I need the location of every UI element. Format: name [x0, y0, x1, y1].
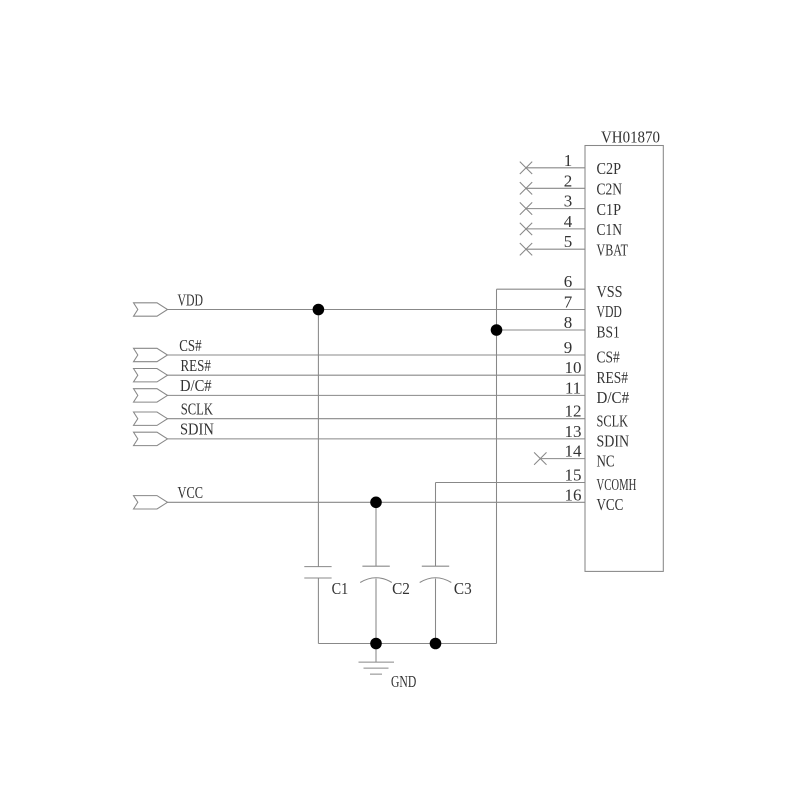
- svg-text:CS#: CS#: [179, 336, 202, 355]
- svg-text:SCLK: SCLK: [597, 411, 629, 430]
- svg-text:9: 9: [564, 338, 573, 357]
- svg-text:VBAT: VBAT: [597, 240, 629, 259]
- C3 lower vertical wire: [435, 579, 437, 644]
- svg-text:RES#: RES#: [597, 368, 629, 387]
- C1 lower vertical wire: [317, 578, 319, 644]
- pin 14 no-connect X: [534, 452, 546, 464]
- VDD net wire pin 7: [168, 309, 586, 311]
- svg-text:11: 11: [565, 378, 581, 397]
- VCOMH vertical wire to C3: [435, 483, 437, 567]
- svg-text:15: 15: [565, 466, 582, 485]
- junction dot VDD/C1: [313, 304, 325, 316]
- pin 8 BS1 wire: [497, 329, 586, 331]
- capacitor C1 top plate: [304, 566, 331, 568]
- svg-text:C1N: C1N: [597, 220, 623, 239]
- svg-text:13: 13: [565, 422, 582, 441]
- svg-text:5: 5: [564, 232, 573, 251]
- pin 2 no-connect X: [520, 182, 532, 194]
- svg-text:RES#: RES#: [181, 356, 212, 375]
- svg-text:14: 14: [565, 442, 583, 461]
- svg-text:GND: GND: [391, 672, 416, 691]
- VDD vertical wire to C1: [317, 310, 319, 567]
- svg-text:VDD: VDD: [178, 290, 204, 309]
- VCC net wire pin 16: [168, 501, 586, 503]
- svg-text:C2N: C2N: [597, 180, 623, 199]
- pin 3 no-connect X: [520, 202, 532, 214]
- pin 10 RES# wire: [168, 374, 586, 376]
- svg-text:BS1: BS1: [597, 323, 620, 342]
- svg-text:D/C#: D/C#: [180, 376, 212, 395]
- pin 1 no-connect X: [520, 162, 532, 174]
- svg-text:CS#: CS#: [597, 348, 621, 367]
- svg-text:C2P: C2P: [597, 159, 622, 178]
- capacitor C1 bottom plate: [304, 577, 331, 579]
- svg-text:VCOMH: VCOMH: [597, 475, 637, 494]
- input port flag SDIN: [134, 432, 168, 445]
- svg-text:6: 6: [564, 272, 573, 291]
- svg-text:C1P: C1P: [597, 200, 622, 219]
- pin 5 no-connect X: [520, 243, 532, 255]
- svg-text:NC: NC: [597, 451, 615, 470]
- svg-text:VCC: VCC: [597, 495, 624, 514]
- svg-text:C3: C3: [454, 579, 472, 598]
- svg-text:C2: C2: [392, 579, 410, 598]
- bottom ground bus wire: [318, 643, 496, 645]
- svg-text:10: 10: [565, 358, 582, 377]
- pin 3 wire: [526, 208, 585, 210]
- svg-text:SCLK: SCLK: [181, 400, 214, 419]
- junction dot C3/ground bus: [430, 638, 442, 650]
- ground symbol stub: [375, 644, 377, 662]
- pin 4 wire: [526, 228, 585, 230]
- IC U1 VH01870 body: [585, 146, 663, 572]
- svg-text:VDD: VDD: [597, 302, 622, 321]
- svg-text:VH01870: VH01870: [601, 127, 660, 146]
- pin 1 wire: [526, 167, 585, 169]
- pin 9 CS# wire: [168, 354, 586, 356]
- input port flag VCC: [134, 496, 168, 509]
- svg-text:1: 1: [564, 151, 573, 170]
- VCC vertical wire to C2: [375, 502, 377, 566]
- svg-text:D/C#: D/C#: [597, 388, 630, 407]
- input port flag CS#: [134, 348, 168, 361]
- input port flag VDD: [134, 303, 168, 316]
- svg-text:7: 7: [564, 293, 573, 312]
- input port flag SCLK: [134, 412, 168, 425]
- svg-text:SDIN: SDIN: [597, 432, 630, 451]
- input port flag RES#: [134, 369, 168, 382]
- input port flag D/C#: [134, 389, 168, 402]
- pin 2 wire: [526, 187, 585, 189]
- capacitor C3 top plate: [422, 565, 449, 567]
- junction dot C2/ground bus: [370, 638, 382, 650]
- svg-text:16: 16: [565, 485, 582, 504]
- junction dot VCC/C2: [370, 497, 382, 509]
- pin 13 SDIN wire: [168, 438, 586, 440]
- svg-text:8: 8: [564, 313, 573, 332]
- svg-text:VSS: VSS: [597, 282, 623, 301]
- svg-text:SDIN: SDIN: [180, 420, 214, 439]
- capacitor C3 bottom curved plate: [420, 578, 452, 583]
- svg-text:3: 3: [564, 192, 573, 211]
- svg-text:VCC: VCC: [178, 483, 204, 502]
- junction dot BS1/ground net: [491, 324, 503, 336]
- pin 5 wire: [526, 248, 585, 250]
- svg-text:2: 2: [564, 171, 573, 190]
- pin 6 VSS wire: [497, 288, 586, 290]
- svg-text:12: 12: [565, 402, 582, 421]
- svg-text:C1: C1: [332, 579, 349, 598]
- pin 11 D/C# wire: [168, 394, 586, 396]
- C2 lower vertical wire: [375, 579, 377, 644]
- pin 4 no-connect X: [520, 223, 532, 235]
- ground net vertical wire: [496, 289, 498, 643]
- capacitor C2 top plate: [362, 565, 389, 567]
- pin 12 SCLK wire: [168, 418, 586, 420]
- pin 14 wire: [540, 458, 585, 460]
- ground symbol bars: [359, 662, 395, 674]
- capacitor C2 bottom curved plate: [360, 578, 392, 583]
- pin 15 VCOMH wire: [436, 482, 586, 484]
- svg-text:4: 4: [564, 212, 573, 231]
